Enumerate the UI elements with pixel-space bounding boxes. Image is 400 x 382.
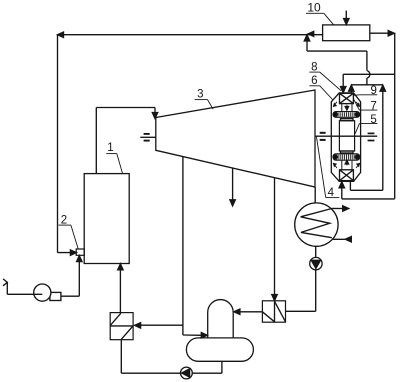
svg-text:5: 5	[370, 114, 376, 126]
svg-text:10: 10	[307, 1, 321, 15]
svg-text:1: 1	[107, 142, 113, 154]
svg-text:2: 2	[61, 214, 67, 226]
svg-text:8: 8	[311, 61, 317, 73]
svg-text:3: 3	[197, 89, 203, 101]
